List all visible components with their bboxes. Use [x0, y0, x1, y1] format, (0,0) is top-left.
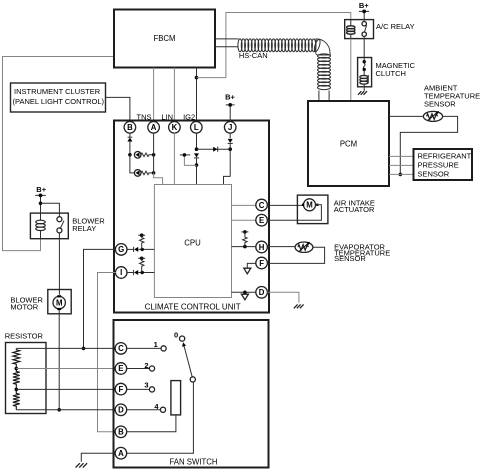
label LIN	[161, 113, 173, 122]
label TNS	[137, 113, 152, 122]
contact 2	[126, 361, 154, 371]
PCM U2	[308, 101, 389, 186]
CPU U3	[154, 185, 231, 298]
svg-text:MOTOR: MOTOR	[10, 302, 38, 311]
wire A branch into CPU	[154, 173, 163, 185]
svg-text:ACTUATOR: ACTUATOR	[334, 205, 375, 214]
svg-text:INSTRUMENT CLUSTER: INSTRUMENT CLUSTER	[14, 87, 101, 96]
svg-text:M: M	[306, 201, 313, 210]
svg-text:FAN SWITCH: FAN SWITCH	[169, 458, 217, 467]
lamp LED1 with resistor to pin A	[128, 152, 155, 159]
svg-text:0: 0	[174, 331, 178, 340]
wire pin I to fan switch pin B	[98, 273, 116, 432]
wire FBCM to pin K (LIN)	[173, 68, 175, 122]
wire arm to pin A	[126, 382, 193, 453]
diode D3 under pin J	[228, 133, 233, 151]
svg-text:M: M	[56, 298, 63, 307]
wire pin D to ground	[267, 292, 299, 303]
wire instrument cluster to pin B	[106, 97, 130, 122]
pin F fan switch	[115, 383, 127, 395]
pin G	[115, 244, 127, 256]
label EVAPORATOR TEMPERATURE SENSOR	[334, 242, 390, 263]
relay K2 BLOWER RELAY	[30, 213, 68, 239]
svg-text:IG2: IG2	[183, 113, 195, 122]
wire pin L down	[195, 133, 199, 151]
wire B+ to relay switch	[41, 203, 60, 217]
svg-text:CPU: CPU	[184, 239, 201, 248]
svg-text:A/C RELAY: A/C RELAY	[376, 22, 415, 31]
wire PCM to ambient temperature sensor	[389, 115, 424, 117]
svg-text:E: E	[118, 364, 123, 373]
fan switch box	[114, 320, 269, 468]
svg-text:3: 3	[144, 380, 148, 389]
wire zener tap stub	[180, 153, 197, 165]
wire pin K to CPU	[173, 133, 175, 185]
label HS-CAN	[239, 51, 268, 60]
pin I	[115, 267, 127, 279]
thermistor evaporator temperature sensor	[295, 242, 313, 253]
wire FBCM to pin A (TNS)	[153, 68, 155, 122]
thermistor ambient temperature sensor	[423, 111, 442, 121]
diode D4 at pin G	[134, 247, 155, 252]
wire A/C relay coil to PCM	[350, 39, 352, 101]
pin B fan switch	[115, 426, 127, 438]
diode D1 under pin B	[127, 133, 132, 155]
wire ambient sensor return to PCM third line	[399, 116, 458, 176]
pin K	[169, 122, 181, 134]
svg-text:(PANEL LIGHT CONTROL): (PANEL LIGHT CONTROL)	[13, 97, 105, 106]
wire blower relay to blower motor	[58, 233, 60, 295]
svg-text:B: B	[118, 428, 124, 437]
svg-text:B+: B+	[359, 1, 369, 10]
wire CPU to pin D row	[232, 291, 257, 300]
pin D	[256, 287, 268, 299]
svg-text:RELAY: RELAY	[72, 224, 96, 233]
svg-text:K: K	[172, 123, 178, 132]
svg-text:B+: B+	[36, 185, 46, 194]
diode D2 between L and J	[197, 147, 231, 152]
contact 1	[126, 340, 166, 351]
twisted pair elbow	[313, 39, 330, 55]
svg-text:CLUTCH: CLUTCH	[376, 69, 406, 78]
wire pin J into CPU	[224, 149, 231, 184]
pin L	[191, 122, 203, 134]
wire resistor tap to fan switch pin F	[16, 388, 115, 390]
wire block to pin B	[126, 415, 175, 432]
svg-text:SENSOR: SENSOR	[418, 170, 450, 179]
B+ supply for pin J	[225, 93, 235, 122]
svg-text:C: C	[259, 201, 265, 210]
svg-text:2: 2	[144, 361, 148, 370]
svg-text:C: C	[118, 344, 124, 353]
svg-text:PCM: PCM	[340, 140, 357, 149]
wire PCM to refrigerant pressure sensor 1	[389, 155, 414, 157]
pin E	[256, 214, 268, 226]
sensor REFRIGERANT PRESSURE SENSOR	[414, 149, 473, 180]
wire pin F to internal ground arrow	[244, 263, 256, 273]
wire pin H to evaporator sensor	[267, 246, 295, 248]
label AMBIENT TEMPERATURE SENSOR	[424, 84, 480, 109]
FBCM U1	[114, 10, 215, 68]
wire CPU to pin E row	[232, 219, 257, 221]
wire fan switch pin A to ground	[81, 453, 115, 462]
wire A/C relay switch to magnetic clutch	[363, 39, 365, 58]
wire resistor to fan switch pin D	[16, 409, 115, 411]
climate control unit box	[114, 121, 269, 313]
svg-text:LIN: LIN	[161, 113, 173, 122]
label MAGNETIC CLUTCH	[376, 61, 416, 78]
svg-text:F: F	[119, 385, 124, 394]
wire pin G row	[127, 248, 134, 250]
relay K1 A/C RELAY	[345, 20, 374, 39]
svg-text:1: 1	[154, 340, 158, 349]
svg-text:H: H	[259, 243, 265, 252]
svg-text:D: D	[259, 288, 265, 297]
pin D fan switch	[115, 404, 127, 416]
pin J	[224, 122, 236, 134]
switch arm	[182, 342, 195, 382]
ground for fan switch	[76, 463, 88, 467]
wire FBCM to blower relay coil (far left)	[3, 57, 115, 251]
ground for pin D	[294, 304, 304, 308]
pin C fan switch	[115, 343, 127, 355]
label BLOWER MOTOR	[10, 296, 43, 312]
svg-text:A: A	[151, 123, 157, 132]
motor M1 BLOWER MOTOR	[48, 290, 71, 314]
wire CAN pair to PCM	[319, 91, 329, 102]
svg-text:RESISTOR: RESISTOR	[5, 332, 44, 341]
wire CPU to pin C row	[232, 204, 257, 206]
svg-text:I: I	[120, 268, 122, 277]
svg-text:E: E	[259, 216, 264, 225]
wire pin A to lamps	[153, 133, 155, 173]
wire IG2 junction to A/C relay coil	[197, 13, 351, 78]
pin F	[256, 257, 268, 269]
wire PCM to refrigerant pressure sensor 3	[389, 173, 414, 175]
svg-text:A: A	[118, 449, 124, 458]
svg-text:CLIMATE CONTROL UNIT: CLIMATE CONTROL UNIT	[145, 302, 241, 311]
wire PCM to refrigerant pressure sensor 2	[389, 164, 414, 166]
resistor pull-up at pin I	[138, 257, 145, 273]
wire pin I row	[127, 272, 134, 274]
label BLOWER RELAY	[72, 216, 105, 232]
node junction on IG2 wire	[195, 76, 199, 80]
wire blower motor to resistor D row	[57, 310, 61, 412]
resistor block R1	[6, 343, 47, 414]
wire CPU to pin H row	[232, 245, 257, 249]
diode D5 at pin I	[134, 270, 155, 275]
wire FBCM to pin L (IG2)	[196, 68, 198, 122]
svg-text:TNS: TNS	[137, 113, 152, 122]
contact 3	[126, 380, 154, 392]
svg-text:SENSOR: SENSOR	[424, 100, 456, 109]
wire pin G to fan switch C row	[82, 249, 116, 350]
svg-text:B+: B+	[225, 93, 235, 102]
zener diode under pin L	[194, 153, 199, 184]
wire evaporator sensor return to pin F	[267, 247, 324, 263]
contact 4	[126, 402, 165, 412]
ground for magnetic clutch	[358, 87, 367, 95]
pin H	[256, 241, 268, 253]
pin E fan switch	[115, 363, 127, 375]
svg-text:FBCM: FBCM	[153, 34, 175, 43]
wire pin C to air intake actuator	[267, 204, 303, 206]
svg-text:D: D	[118, 406, 124, 415]
svg-text:J: J	[228, 123, 232, 132]
actuator box AIR INTAKE ACTUATOR	[297, 195, 328, 224]
svg-text:SENSOR: SENSOR	[334, 254, 366, 263]
label RESISTOR	[5, 332, 44, 341]
pin A fan switch	[115, 447, 127, 459]
pin C	[256, 199, 268, 211]
wire pin E to actuator motor	[267, 205, 321, 220]
svg-text:HS-CAN: HS-CAN	[239, 51, 268, 60]
label IG2	[183, 113, 195, 122]
resistor pull-up at pin G	[138, 233, 145, 249]
twisted pair HS-CAN horizontal	[238, 39, 316, 52]
svg-text:B: B	[127, 123, 133, 132]
instrument cluster box	[11, 83, 106, 112]
B+ supply for blower relay	[35, 185, 47, 213]
svg-text:F: F	[259, 259, 264, 268]
label A/C RELAY	[376, 22, 415, 31]
B+ supply for A/C relay	[359, 1, 369, 20]
svg-text:REFRIGERANT: REFRIGERANT	[418, 152, 472, 161]
resistor pull-up at pin H	[241, 230, 248, 247]
svg-text:G: G	[118, 245, 124, 254]
wire HS-CAN pair from FBCM	[215, 39, 239, 47]
wire resistor to fan switch pin C	[16, 347, 115, 349]
svg-text:PRESSURE: PRESSURE	[418, 161, 459, 170]
label AIR INTAKE ACTUATOR	[334, 199, 375, 214]
pin B	[124, 122, 136, 134]
switch block rectangle	[171, 381, 181, 415]
twisted pair vertical	[318, 54, 331, 90]
lamp LED2 with resistor to pin A	[130, 155, 156, 176]
contact 0	[174, 331, 185, 342]
pin A	[148, 122, 160, 134]
svg-text:L: L	[194, 123, 199, 132]
magnetic clutch L1	[358, 58, 372, 87]
wire resistor tap to fan switch pin E	[16, 368, 115, 370]
